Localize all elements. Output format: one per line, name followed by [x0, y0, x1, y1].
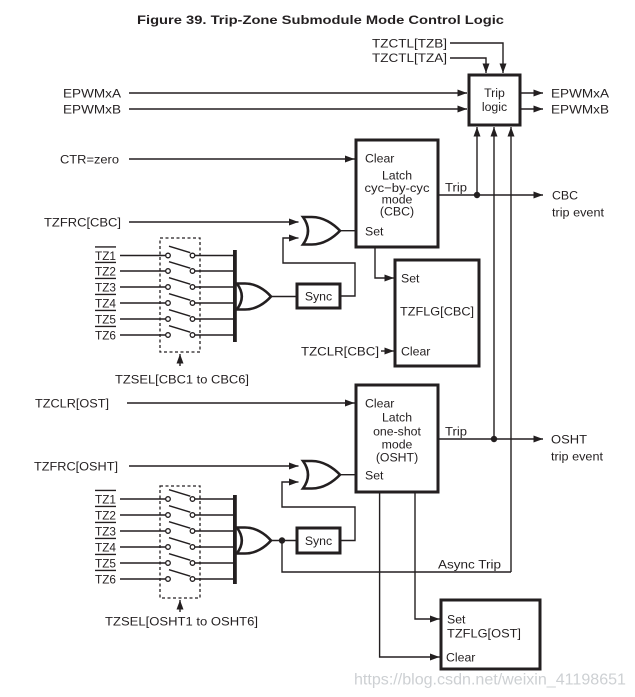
svg-text:mode: mode	[382, 438, 413, 452]
svg-text:TZCTL[TZB]: TZCTL[TZB]	[372, 37, 447, 51]
svg-text:TZSEL[OSHT1 to OSHT6]: TZSEL[OSHT1 to OSHT6]	[105, 615, 258, 629]
svg-text:Clear: Clear	[365, 397, 394, 411]
svg-text:TZ1: TZ1	[95, 249, 116, 263]
svg-text:TZCTL[TZA]: TZCTL[TZA]	[372, 51, 447, 65]
svg-text:EPWMxA: EPWMxA	[63, 87, 122, 101]
svg-text:Async Trip: Async Trip	[438, 558, 501, 572]
svg-text:CTR=zero: CTR=zero	[60, 153, 119, 167]
svg-text:EPWMxB: EPWMxB	[551, 103, 609, 117]
svg-text:trip event: trip event	[551, 450, 604, 464]
svg-text:Sync: Sync	[305, 534, 332, 548]
svg-text:Set: Set	[365, 469, 384, 483]
svg-text:TZ1: TZ1	[95, 493, 116, 507]
svg-text:Sync: Sync	[305, 290, 332, 304]
svg-text:OSHT: OSHT	[551, 433, 588, 447]
svg-text:TZFLG[OST]: TZFLG[OST]	[447, 627, 521, 641]
svg-text:(OSHT): (OSHT)	[376, 451, 418, 465]
svg-text:TZ5: TZ5	[95, 557, 116, 571]
svg-text:Clear: Clear	[401, 345, 430, 359]
svg-text:TZ3: TZ3	[95, 281, 116, 295]
svg-text:TZ6: TZ6	[95, 329, 116, 343]
svg-text:https://blog.csdn.net/weixin_4: https://blog.csdn.net/weixin_41198651	[354, 672, 626, 689]
svg-text:TZ4: TZ4	[95, 297, 116, 311]
svg-text:EPWMxB: EPWMxB	[63, 103, 121, 117]
svg-text:TZ4: TZ4	[95, 541, 116, 555]
svg-text:TZFLG[CBC]: TZFLG[CBC]	[400, 305, 474, 319]
svg-text:TZ5: TZ5	[95, 313, 116, 327]
svg-text:Latch: Latch	[382, 411, 412, 425]
svg-text:Trip: Trip	[445, 181, 467, 195]
svg-text:Set: Set	[447, 613, 466, 627]
svg-text:logic: logic	[482, 100, 507, 114]
svg-text:Trip: Trip	[445, 425, 467, 439]
svg-text:Clear: Clear	[365, 152, 394, 166]
svg-text:Figure 39. Trip-Zone Submodule: Figure 39. Trip-Zone Submodule Mode Cont…	[137, 13, 504, 27]
svg-text:Set: Set	[365, 225, 384, 239]
svg-text:TZ2: TZ2	[95, 509, 116, 523]
svg-text:Trip: Trip	[484, 86, 505, 100]
svg-text:TZ3: TZ3	[95, 525, 116, 539]
svg-text:TZFRC[OSHT]: TZFRC[OSHT]	[34, 460, 118, 474]
svg-text:EPWMxA: EPWMxA	[551, 87, 610, 101]
svg-text:Set: Set	[401, 272, 420, 286]
svg-text:Clear: Clear	[446, 651, 475, 665]
svg-text:trip event: trip event	[552, 206, 605, 220]
svg-text:TZSEL[CBC1 to CBC6]: TZSEL[CBC1 to CBC6]	[115, 373, 249, 387]
svg-text:TZ2: TZ2	[95, 265, 116, 279]
svg-text:(CBC): (CBC)	[380, 205, 414, 219]
svg-text:CBC: CBC	[552, 189, 578, 203]
svg-text:TZCLR[CBC]: TZCLR[CBC]	[301, 345, 379, 359]
svg-text:TZ6: TZ6	[95, 573, 116, 587]
svg-text:one-shot: one-shot	[373, 425, 421, 439]
svg-text:TZCLR[OST]: TZCLR[OST]	[35, 397, 109, 411]
svg-text:TZFRC[CBC]: TZFRC[CBC]	[44, 216, 121, 230]
